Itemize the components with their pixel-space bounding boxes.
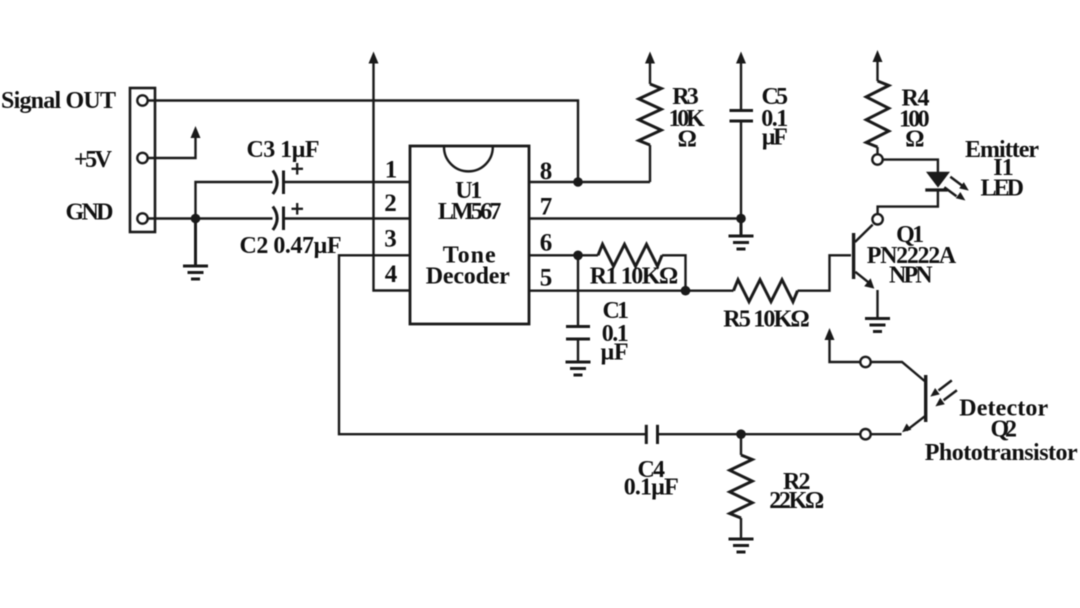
wire C2 to pin 2 [284,217,411,219]
svg-text:R1 10KΩ: R1 10KΩ [590,264,678,290]
wire Q2 collector terminal to transistor [871,362,925,381]
capacitor C5 [730,62,754,219]
terminal circle R4 to LED [872,154,882,164]
resistor R1 [598,244,662,266]
resistor R3 [639,63,662,182]
capacitor C1 [566,255,590,361]
IC U1 body [410,146,529,324]
svg-text:Signal OUT: Signal OUT [1,88,116,114]
wire R5 to Q1 base [798,255,852,290]
transistor Q1 [854,225,875,289]
wire Q1 emitter to ground [876,290,878,318]
power arrow +5V above pin 4 rail [369,52,379,64]
wire GND junction up to C3 [196,182,273,219]
wire pin 7 to C5 [529,217,741,219]
wire pin 3 down and to C4 [339,255,646,434]
svg-text:LM567: LM567 [438,199,501,225]
power arrow +5V above C5 [736,52,746,64]
junction pin 8 / Signal OUT [573,177,583,187]
junction R1 / pin 5 wire [681,286,691,296]
resistor R2 [730,434,753,538]
svg-text:+5V: +5V [74,147,113,173]
svg-text:LED: LED [980,176,1023,202]
svg-text:Ω: Ω [678,126,697,152]
resistor R4 [866,62,889,155]
svg-text:5: 5 [540,265,553,292]
junction GND [191,214,201,224]
wire pin 6 [529,254,598,256]
power arrow at Q2 collector [825,328,835,340]
power arrow +5V above R3 [645,52,655,64]
power arrow +5V [191,126,201,138]
terminal circle Q2 emitter [860,429,870,439]
junction pin 6 / C1 [573,251,583,261]
connector J1 [130,88,155,232]
terminal circle Q2 collector [860,357,870,367]
junction C4 / R2 [736,429,746,439]
svg-text:C2 0.47µF: C2 0.47µF [240,233,342,259]
power arrow +5V above R4 [873,50,883,62]
ground symbol under R2 [729,539,754,552]
capacitor C4 [646,425,657,444]
ground symbol under C1 [566,362,591,375]
wire pin 5 to R5 [529,290,734,292]
svg-text:Phototransistor: Phototransistor [925,440,1078,466]
resistor R5 [734,280,798,302]
svg-text:Ω: Ω [905,126,924,152]
svg-text:Q2: Q2 [990,417,1017,443]
wire +5V pin [148,136,196,158]
svg-text:4: 4 [385,261,398,288]
svg-text:2: 2 [384,190,397,217]
wire GND pin [148,217,273,219]
LED I1 [925,172,969,201]
svg-text:NPN: NPN [889,263,933,289]
wire Q2 emitter diagonal corner [871,433,902,435]
ground symbol at pin 7 [729,219,754,250]
svg-text:µF: µF [762,125,788,151]
wire +5V rail down to pin 4 [374,62,411,291]
wire C3 to pin 1 [284,181,411,183]
phototransistor Q2 [902,375,957,432]
svg-text:1: 1 [385,157,398,184]
svg-text:R5 10KΩ: R5 10KΩ [723,307,809,333]
junction pin 7 / C5 / ground [736,214,746,224]
wire arrow to Q2 collector terminal [830,338,861,362]
wire LED cathode to Q1 collector terminal [878,190,938,213]
ground symbol Q1 emitter [865,319,890,332]
svg-text:6: 6 [540,230,553,257]
svg-text:3: 3 [384,226,397,253]
capacitor C3 (polarized) [273,163,303,194]
svg-text:0.1µF: 0.1µF [624,475,679,501]
terminal circle Q1 collector [872,214,882,224]
svg-text:Decoder: Decoder [426,264,510,290]
wire R4 terminal to LED anode [883,160,938,172]
svg-text:GND: GND [66,200,114,226]
svg-text:7: 7 [540,194,553,221]
wire C4 to Q2 emitter terminal [658,433,861,435]
svg-text:µF: µF [601,340,629,366]
wire Signal OUT to pin 8 [148,101,578,182]
capacitor C2 (polarized) [273,203,303,230]
wire R1 out down to pin 5 row [662,255,686,290]
ground symbol at GND junction [183,219,208,280]
wire pin 8 to R3 [529,181,650,183]
svg-text:C3 1µF: C3 1µF [247,137,320,163]
svg-text:22KΩ: 22KΩ [769,488,824,514]
